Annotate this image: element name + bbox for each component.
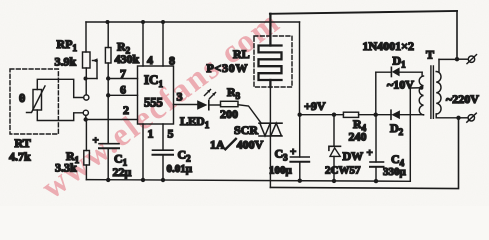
label R4 (353, 117, 367, 133)
svg-text:2: 2 (123, 103, 129, 117)
svg-text:~220V: ~220V (446, 92, 479, 106)
label 2CW57 (325, 165, 361, 177)
wire pin 7 (108, 78, 137, 80)
pin 5 (162, 124, 164, 180)
label C4 plus (367, 147, 373, 159)
label LED1 (180, 114, 210, 130)
label 1A/400V (210, 137, 264, 152)
label 3 (177, 90, 183, 104)
svg-text:T: T (426, 48, 434, 62)
thyristor SCR (triac) (259, 123, 282, 136)
label 4.7k (9, 150, 31, 164)
transformer T primary (436, 59, 458, 117)
label C1 (114, 152, 128, 168)
svg-text:+: + (367, 147, 373, 159)
label R2 (117, 40, 131, 56)
svg-text:5: 5 (168, 127, 174, 141)
wire SCR cathode to mains return (269, 136, 271, 187)
label ~10V (387, 78, 414, 92)
RT probe dashed box (10, 69, 58, 134)
diode D1 (376, 67, 422, 114)
wire RP1 to top terminal (85, 79, 87, 95)
pin 1 (142, 124, 144, 180)
resistor R3 (221, 101, 262, 123)
svg-text:430k: 430k (115, 52, 140, 66)
svg-text:330μ: 330μ (383, 166, 407, 178)
wire SCR anode (269, 80, 271, 123)
node dot pin8 top (161, 20, 165, 24)
node dot C2 gnd (161, 178, 165, 182)
label 22u (113, 165, 132, 179)
svg-text:3.3k: 3.3k (55, 161, 77, 175)
terminal mains bottom (459, 113, 477, 122)
node dot mains top (455, 57, 459, 61)
node dot center tap (419, 86, 423, 90)
svg-text:1: 1 (148, 127, 154, 141)
svg-text:+9V: +9V (304, 99, 326, 113)
svg-text:3.9k: 3.9k (55, 55, 77, 69)
label 4 (147, 53, 153, 67)
label C1 plus (93, 135, 99, 147)
label C3 (275, 147, 289, 163)
wire pin 2 (86, 119, 138, 121)
pin 8 (162, 22, 164, 66)
label 1N4001x2 (363, 39, 415, 53)
label 8 (169, 54, 175, 68)
label 6 (120, 83, 126, 97)
node dot C4 gnd (374, 179, 378, 183)
wire +9V top rail (86, 21, 300, 23)
label SCR (234, 123, 258, 137)
potentiometer RP1 (83, 22, 98, 79)
node dot pin4 top (141, 20, 145, 24)
label C3 plus (290, 146, 296, 158)
label 200 (220, 107, 238, 121)
terminal mains top (457, 55, 477, 64)
wire center tap to ground (410, 88, 421, 182)
op-amp U1 555 box (138, 66, 174, 124)
svg-text:7: 7 (120, 67, 126, 81)
node dot pin2 (84, 117, 88, 121)
svg-text:+: + (290, 146, 296, 158)
heater element RL meander (259, 14, 282, 87)
node dot rectifier out (374, 113, 378, 117)
label 240 (349, 130, 367, 144)
label ~220V (446, 92, 479, 106)
node dot mains bottom (456, 116, 460, 120)
wire RT top loop (37, 79, 83, 97)
capacitor C3 (290, 115, 309, 180)
label C4 (391, 152, 405, 168)
label 5 (168, 127, 174, 141)
node dot RP1 junction (84, 77, 88, 81)
svg-text:RL: RL (233, 47, 250, 61)
svg-text:1A／400V: 1A／400V (210, 137, 264, 152)
node dot pin6 (106, 93, 110, 97)
ground rail (86, 180, 410, 182)
label RT (15, 136, 31, 150)
label T (426, 48, 434, 62)
watermark red diagonal www.elecfans.com (35, 4, 287, 206)
transformer T secondary (419, 72, 423, 115)
label 2 (123, 103, 129, 117)
label 3.9k (55, 55, 77, 69)
pin 4 (142, 22, 144, 66)
label 1 (148, 127, 154, 141)
svg-text:3: 3 (177, 90, 183, 104)
svg-text:6: 6 (120, 83, 126, 97)
terminal (bottom socket) (83, 110, 88, 115)
svg-text:DW: DW (343, 149, 364, 163)
label theta (19, 91, 25, 105)
node dot C1 gnd (106, 178, 110, 182)
svg-text:θ: θ (19, 91, 25, 105)
node dot pin7 (106, 76, 110, 80)
label RL (233, 47, 250, 61)
svg-text:4: 4 (147, 53, 153, 67)
resistor R4 (343, 112, 375, 117)
label D2 (390, 121, 404, 137)
resistor R1 (84, 120, 90, 180)
label 3.3k (55, 161, 77, 175)
capacitor C4 (370, 115, 384, 181)
label R1 (66, 149, 80, 165)
svg-text:555: 555 (144, 96, 163, 110)
label P<30W (207, 61, 249, 75)
svg-text:4.7k: 4.7k (9, 150, 31, 164)
label +9V (304, 99, 326, 113)
label RP1 (57, 37, 78, 53)
svg-text:P<30W: P<30W (207, 61, 249, 75)
label 330u (383, 166, 407, 178)
label 100u (269, 165, 293, 177)
svg-text:22μ: 22μ (113, 165, 132, 179)
label DW (343, 149, 364, 163)
wire pin 6 (108, 94, 137, 96)
svg-text:200: 200 (220, 107, 238, 121)
label C2 (178, 148, 192, 164)
label 0.01u (167, 163, 193, 175)
svg-text:SCR: SCR (234, 123, 258, 137)
svg-text:1N4001×2: 1N4001×2 (363, 39, 415, 53)
node dot R2 top (106, 20, 110, 24)
node dot pin1 gnd (141, 178, 145, 182)
wire terminal to pin2 node (85, 115, 87, 119)
node dot C3 gnd (298, 179, 302, 183)
label 555 (144, 96, 163, 110)
capacitor C1 (99, 144, 119, 180)
wire mains right drop (456, 11, 458, 59)
wire +9V drop and node (299, 22, 301, 115)
svg-text:2CW57: 2CW57 (325, 165, 361, 177)
resistor R2 (105, 22, 111, 144)
capacitor C2 (153, 150, 174, 155)
thermistor RT (27, 86, 46, 113)
wire mains return (270, 118, 458, 189)
diode D2 (376, 110, 424, 119)
wire RT bottom loop (37, 110, 83, 121)
heater RL dashed box (254, 36, 292, 87)
label 430k (115, 52, 140, 66)
label D1 (393, 54, 407, 70)
transformer core (431, 66, 434, 118)
label R3 (227, 85, 241, 101)
zener DW (329, 115, 341, 181)
node dot DW gnd (332, 179, 336, 183)
wire mains top rail (270, 11, 457, 14)
node dot +9V C3 (298, 113, 302, 117)
svg-text:240: 240 (349, 130, 367, 144)
label 7 (120, 67, 126, 81)
svg-text:+: + (93, 135, 99, 147)
label IC1 (144, 72, 163, 89)
terminal (top socket) (84, 95, 89, 100)
wire +9V rail right (300, 114, 344, 116)
node dot DW top (332, 113, 336, 117)
svg-text:8: 8 (169, 54, 175, 68)
svg-text:RT: RT (15, 136, 31, 150)
wire pin 3 (174, 104, 198, 106)
LED1 (197, 90, 220, 110)
svg-text:0.01μ: 0.01μ (167, 163, 193, 175)
svg-text:100μ: 100μ (269, 165, 293, 177)
